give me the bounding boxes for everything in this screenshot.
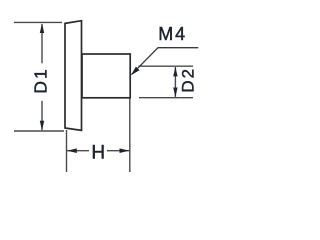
svg-text:H: H	[91, 142, 105, 163]
svg-text:D1: D1	[30, 67, 50, 93]
svg-text:D2: D2	[179, 67, 198, 93]
svg-text:M4: M4	[158, 24, 187, 44]
